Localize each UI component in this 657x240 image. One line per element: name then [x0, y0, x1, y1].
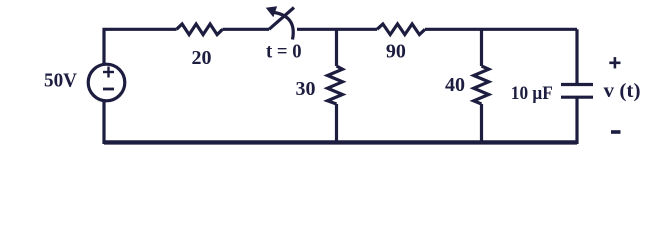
switch blade — [269, 8, 294, 30]
plus sign right terminal — [609, 61, 620, 64]
svg-text:40: 40 — [445, 74, 465, 96]
wire R30 top vertical — [335, 29, 338, 66]
minus sign right terminal — [611, 130, 621, 134]
wire R30 bottom vertical — [335, 104, 338, 144]
svg-text:20: 20 — [192, 47, 212, 69]
wire R20 to switch — [223, 28, 270, 31]
resistor R3 30 ohm vertical — [328, 66, 343, 104]
svg-text:t = 0: t = 0 — [266, 40, 302, 62]
wire R40 top vertical — [480, 29, 483, 66]
resistor R1 20 ohm — [177, 24, 223, 35]
svg-text:v (t): v (t) — [604, 81, 641, 102]
minus sign inside source — [103, 88, 114, 91]
resistor R4 40 ohm vertical — [474, 66, 489, 104]
switch arc arrow — [275, 13, 294, 40]
svg-text:50V: 50V — [44, 69, 78, 91]
wire top-left horizontal (source to R20) — [104, 29, 177, 64]
wire bottom horizontal — [104, 140, 577, 144]
svg-text:10 μF: 10 μF — [511, 83, 553, 104]
switch arrowhead — [266, 6, 277, 17]
wire R90 to top-right corner — [425, 28, 577, 31]
wire R40 bottom vertical — [480, 104, 483, 144]
plus sign inside source — [103, 71, 114, 73]
capacitor C1 top plate — [561, 83, 593, 86]
wire source bottom vertical — [102, 101, 105, 144]
wire right vertical below capacitor — [575, 97, 578, 144]
svg-text:30: 30 — [296, 78, 316, 100]
svg-text:90: 90 — [386, 41, 406, 63]
wire switch to R90 — [297, 28, 377, 31]
voltage source V1 circle — [88, 64, 125, 101]
wire right vertical above capacitor — [575, 29, 578, 84]
resistor R2 90 ohm — [377, 24, 425, 35]
capacitor C1 bottom plate — [561, 96, 593, 99]
